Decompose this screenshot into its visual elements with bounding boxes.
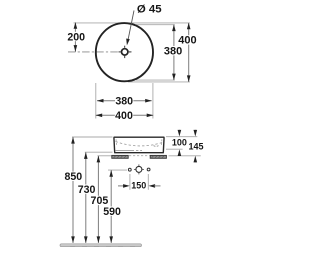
svg-text:150: 150	[131, 180, 146, 190]
label 400 right background	[178, 35, 196, 44]
leader line from Ø45 label to drain	[128, 11, 134, 42]
dimension 150 left tail	[118, 185, 124, 187]
dimension 380 right line	[173, 25, 175, 80]
dimension 850 line	[72, 137, 74, 243]
center symbol tick north	[138, 164, 140, 166]
dimension 150 extension tick left	[129, 174, 131, 190]
dimension 400 bottom right arrow	[147, 114, 154, 118]
label 730 background	[78, 184, 96, 193]
svg-text:400: 400	[178, 35, 196, 47]
dimension 730 bottom arrow	[84, 236, 88, 243]
extension line below circle left	[95, 83, 97, 119]
dimension 705 bottom arrow	[97, 236, 101, 243]
dimension 100 lower arrow (outside, pointing up)	[178, 149, 182, 156]
dimension 380 right top arrow	[172, 25, 176, 32]
svg-text:100: 100	[172, 138, 187, 148]
dimension 200 bottom arrow	[74, 45, 78, 52]
inner wall hidden dashes right	[160, 139, 163, 146]
countertop block right (hatched)	[150, 155, 166, 158]
center symbol tick west	[134, 168, 136, 170]
bowl interior dashed curve	[116, 142, 163, 146]
vessel body outline (side view)	[114, 137, 165, 153]
extension rim top left (for 850)	[72, 136, 113, 138]
inner wall hidden dashes left	[115, 139, 118, 146]
bowl interior bottom hidden line	[115, 149, 134, 151]
dimension 150 extension tick right	[147, 174, 149, 190]
dimension 730 top arrow	[84, 152, 88, 159]
drain tick north	[124, 46, 126, 48]
tap hole symbol center circle	[136, 166, 142, 172]
label 380 right background	[164, 46, 182, 55]
floor bar	[60, 244, 142, 247]
tap hole symbol left ring	[128, 168, 131, 171]
svg-text:Ø 45: Ø 45	[137, 4, 162, 16]
dimension 400 right bottom arrow	[187, 75, 191, 82]
dimension 150 left arrow (pointing right)	[123, 184, 130, 188]
dimension 705 line	[97, 156, 99, 243]
label 590 background	[103, 206, 121, 215]
dashed centerline of basin top view	[68, 51, 134, 53]
dimension 100 upper arrow (outside, pointing down)	[178, 130, 182, 137]
dimension 590 line	[110, 170, 112, 243]
svg-text:400: 400	[115, 110, 133, 122]
center symbol tick south	[138, 173, 140, 175]
dimension 850 top arrow	[71, 137, 75, 144]
extension line top outer (400 top)	[74, 22, 190, 24]
label 200 background	[67, 32, 85, 41]
extension rim top right (for 100/145)	[166, 136, 197, 138]
drain outlet circle	[122, 49, 128, 55]
dimension 380 right bottom arrow	[172, 74, 176, 81]
dimension 850 bottom arrow	[71, 236, 75, 243]
hidden dashed line between counter blocks	[129, 155, 150, 157]
floor hatch dashes	[70, 245, 135, 247]
dimension 400 right top arrow	[187, 23, 191, 30]
countertop block left (hatched)	[112, 155, 128, 158]
svg-text:380: 380	[164, 45, 182, 57]
dimension 380 bottom line	[97, 100, 152, 102]
drain tick west	[119, 51, 121, 53]
extension line bottom outer (400 bottom)	[128, 81, 190, 83]
dimension 145 lower arrow (outside, pointing up)	[194, 156, 198, 163]
dimension 400 bottom line	[96, 114, 154, 116]
label 400 bottom background	[115, 111, 133, 120]
dimension 380 bottom left arrow	[97, 99, 104, 103]
extension tap hole line (for 590)	[108, 169, 127, 171]
dimension 590 top arrow	[109, 170, 113, 177]
dimension 200 top arrow	[74, 22, 78, 29]
drain hidden dashes in side view	[154, 145, 159, 148]
dimension 400 right line	[188, 23, 190, 82]
svg-text:590: 590	[103, 206, 121, 218]
leader arrowhead	[126, 39, 130, 46]
extension bowl interior bottom right (for 100)	[166, 148, 183, 150]
dimension 145 upper arrow (outside, pointing down)	[194, 130, 198, 137]
extension line below circle right	[152, 83, 154, 119]
dimension 730 line	[85, 152, 87, 243]
svg-text:850: 850	[64, 171, 82, 183]
drain tick east	[129, 51, 131, 53]
basin outer circle (top view)	[96, 23, 153, 81]
extension line top inner (380 top)	[136, 24, 175, 26]
svg-text:380: 380	[115, 96, 133, 108]
svg-text:145: 145	[188, 142, 203, 152]
dimension 590 bottom arrow	[109, 236, 113, 243]
label 380 bottom background	[115, 96, 133, 105]
label 705 background	[90, 196, 108, 205]
dimension 380 bottom right arrow	[145, 99, 152, 103]
center symbol tick east	[142, 168, 144, 170]
drain tick south	[124, 56, 126, 58]
extension counter bottom left (for 705)	[97, 155, 112, 157]
dimension 400 bottom left arrow	[96, 114, 103, 118]
bowl interior bottom hidden dashes	[136, 149, 142, 151]
extension counter bottom right (for 145)	[169, 155, 201, 157]
dimension 150 right tail	[154, 185, 160, 187]
dimension 200 line	[74, 22, 76, 51]
svg-text:200: 200	[67, 31, 85, 43]
extension line bottom inner (380 bottom)	[136, 79, 175, 81]
dimension 150 right arrow (pointing left)	[149, 184, 156, 188]
label 850 background	[64, 172, 82, 181]
dimension 705 top arrow	[97, 156, 101, 163]
svg-text:730: 730	[78, 184, 96, 196]
extension body bottom left (for 730)	[85, 151, 113, 153]
tap hole symbol right ring	[147, 168, 150, 171]
